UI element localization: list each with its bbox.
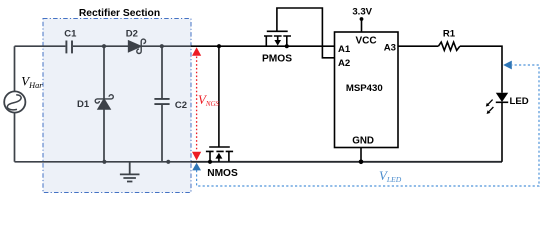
svg-text:D2: D2: [126, 29, 138, 40]
svg-text:LED: LED: [510, 96, 529, 107]
svg-text:C1: C1: [64, 29, 77, 40]
svg-text:MSP430: MSP430: [346, 83, 383, 94]
svg-text:D1: D1: [77, 99, 90, 110]
svg-text:A3: A3: [384, 42, 396, 53]
svg-text:R1: R1: [443, 28, 456, 39]
svg-text:GND: GND: [352, 136, 374, 147]
svg-text:VCC: VCC: [355, 36, 376, 47]
svg-text:Rectifier Section: Rectifier Section: [79, 8, 160, 19]
svg-text:A2: A2: [338, 58, 350, 69]
svg-text:NMOS: NMOS: [207, 168, 238, 179]
svg-text:PMOS: PMOS: [262, 54, 292, 65]
svg-text:3.3V: 3.3V: [352, 7, 372, 18]
svg-text:A1: A1: [338, 44, 351, 55]
svg-text:C2: C2: [175, 100, 187, 111]
